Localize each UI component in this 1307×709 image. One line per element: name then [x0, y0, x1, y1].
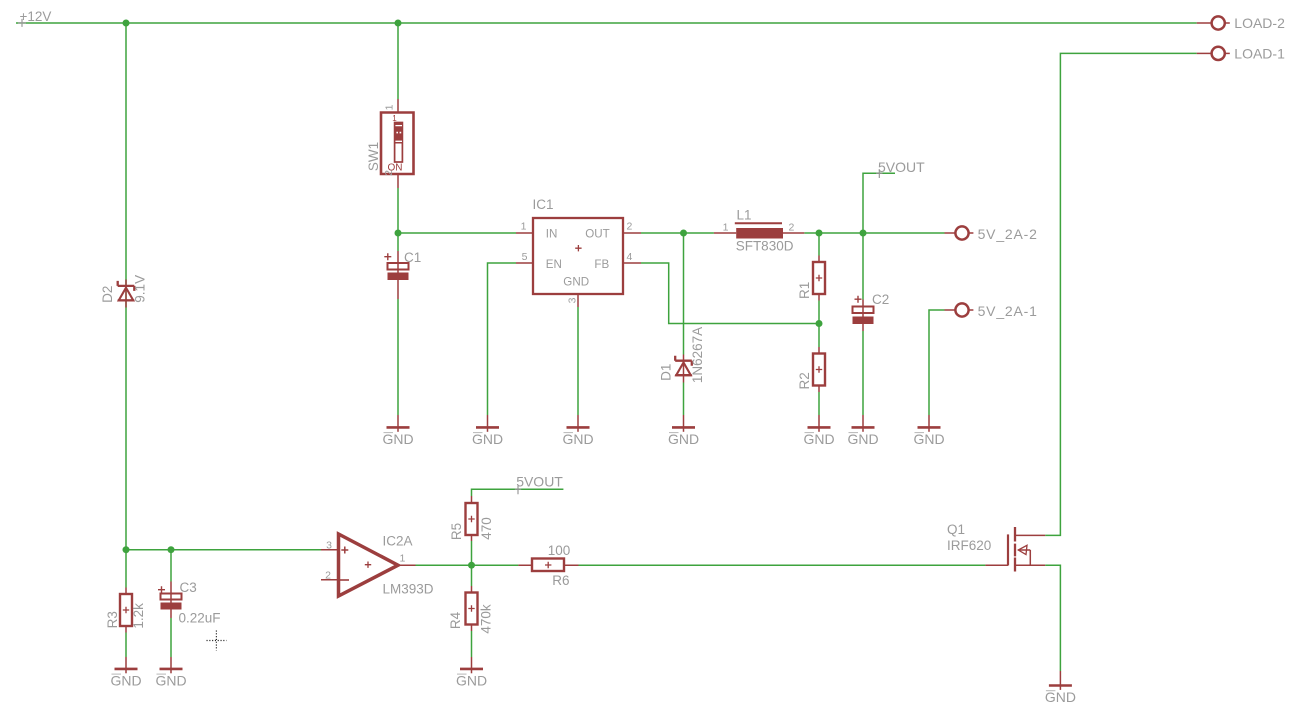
svg-text:1: 1	[521, 221, 527, 233]
capacitor C2	[853, 296, 874, 331]
svg-text:9.1V: 9.1V	[132, 275, 147, 303]
wire L1 to 5V_2A-2 pin	[804, 232, 944, 234]
svg-text:D2: D2	[100, 286, 115, 303]
svg-text:5V_2A-1: 5V_2A-1	[978, 303, 1038, 319]
svg-text:FB: FB	[594, 258, 609, 271]
svg-text:EN: EN	[546, 258, 562, 271]
wire R5 bottom	[471, 541, 473, 565]
wire SW1 bottom to node	[397, 188, 399, 233]
svg-text:470: 470	[479, 517, 494, 540]
wire R2 to GND	[818, 392, 820, 415]
svg-text:5: 5	[522, 251, 528, 263]
switch SW1	[381, 99, 414, 188]
node 5VOUT label bottom	[515, 474, 564, 495]
diode D2 zener 9.1V	[118, 280, 135, 308]
resistor R2	[813, 347, 825, 392]
wire C2 to GND	[862, 331, 864, 415]
svg-text:5VOUT: 5VOUT	[516, 474, 563, 490]
ground	[472, 415, 503, 447]
junction	[816, 230, 823, 237]
wire node to IC1 IN	[398, 232, 516, 234]
wire Q1 source to GND	[1045, 565, 1060, 671]
wire R4 top	[471, 565, 473, 586]
svg-text:3: 3	[326, 540, 332, 552]
ground	[382, 415, 413, 447]
diode D1 1N6267A	[675, 355, 692, 383]
transistor Q1 IRF620	[985, 527, 1045, 572]
svg-text:GND: GND	[1045, 689, 1076, 705]
op-amp IC2A LM393D	[321, 534, 416, 596]
wire C1 top	[397, 233, 399, 251]
svg-text:GND: GND	[803, 431, 834, 447]
wire IC1 OUT to L1	[641, 232, 714, 234]
svg-text:5VOUT: 5VOUT	[878, 159, 925, 175]
svg-text:100: 100	[548, 543, 571, 558]
connector pin 5V_2A-2	[945, 226, 974, 239]
ground	[562, 415, 593, 447]
svg-text:1: 1	[392, 114, 397, 123]
svg-text:GND: GND	[913, 431, 944, 447]
svg-text:C1: C1	[404, 250, 421, 265]
svg-text:5V_2A-2: 5V_2A-2	[978, 226, 1038, 242]
svg-text:GND: GND	[668, 431, 699, 447]
resistor R1	[813, 256, 825, 301]
wire C3 top	[170, 550, 172, 582]
junction	[816, 320, 823, 327]
junction	[468, 562, 475, 569]
svg-text:GND: GND	[562, 431, 593, 447]
node +12V label	[18, 9, 51, 27]
inductor L1	[714, 223, 804, 238]
svg-text:GND: GND	[472, 431, 503, 447]
junction	[395, 230, 402, 237]
svg-text:4: 4	[627, 251, 633, 263]
svg-text:+12V: +12V	[20, 9, 52, 24]
wire R1 top	[818, 233, 820, 256]
svg-text:2: 2	[383, 170, 395, 176]
junction	[168, 546, 175, 553]
wire +12V top rail	[16, 22, 1197, 24]
svg-text:1: 1	[383, 104, 395, 110]
svg-text:0.22uF: 0.22uF	[179, 611, 221, 626]
wire 5VOUT riser	[863, 173, 895, 233]
svg-text:R1: R1	[797, 282, 812, 299]
ground	[456, 657, 487, 689]
resistor R4	[466, 586, 478, 631]
wire R3 to GND	[125, 633, 127, 658]
wire IC2A output to R6	[416, 564, 519, 566]
junction	[680, 230, 687, 237]
svg-text:L1: L1	[737, 208, 752, 223]
svg-text:1.2k: 1.2k	[131, 603, 146, 629]
wire D1 branch upper	[683, 233, 685, 355]
op-amp/regulator IC1	[516, 218, 641, 307]
node 5VOUT label top	[876, 159, 925, 178]
svg-text:IC1: IC1	[533, 197, 554, 212]
svg-text:2: 2	[325, 570, 331, 582]
svg-text:GND: GND	[563, 275, 589, 288]
svg-text:R2: R2	[797, 372, 812, 389]
svg-text:3: 3	[566, 297, 578, 303]
svg-text:R3: R3	[105, 611, 120, 628]
capacitor C1	[384, 251, 408, 299]
svg-text:C3: C3	[180, 580, 197, 595]
wire R5 top 5VOUT stub	[472, 489, 564, 496]
svg-text:IRF620: IRF620	[947, 538, 991, 553]
svg-text:C2: C2	[872, 292, 889, 307]
svg-text:1N6267A: 1N6267A	[690, 327, 705, 383]
wire R2 top	[818, 324, 820, 348]
junction	[860, 230, 867, 237]
junction	[395, 20, 402, 27]
svg-text:2: 2	[789, 222, 795, 234]
resistor R5	[466, 496, 478, 541]
ground	[1045, 671, 1076, 705]
wire LOAD-1 down to Q1 drain	[1045, 53, 1197, 535]
svg-text:470k: 470k	[479, 604, 494, 634]
svg-text:R5: R5	[449, 523, 464, 540]
wire R1 bottom to node	[818, 301, 820, 324]
connector pin LOAD-2	[1197, 16, 1230, 29]
ground	[803, 415, 834, 447]
svg-text:IC2A: IC2A	[383, 534, 413, 549]
cursor cross mark	[207, 631, 227, 651]
svg-text:GND: GND	[382, 431, 413, 447]
wire R3 top	[125, 550, 127, 588]
junction	[123, 20, 130, 27]
wire R6 to Q1 gate	[579, 564, 986, 566]
ground	[913, 415, 944, 447]
svg-text:GND: GND	[456, 673, 487, 689]
wire D1 to GND	[683, 383, 685, 416]
wire C3 to GND	[170, 618, 172, 657]
capacitor C3	[158, 582, 182, 619]
svg-text:GND: GND	[110, 673, 141, 689]
svg-text:LOAD-2: LOAD-2	[1234, 15, 1285, 31]
wire C2 top	[862, 233, 864, 300]
wire 5V_2A-1 to GND	[929, 310, 945, 415]
wire IC1 GND pin down	[577, 307, 579, 415]
ground	[668, 415, 699, 447]
svg-text:R6: R6	[552, 573, 569, 588]
svg-text:OUT: OUT	[585, 228, 609, 241]
svg-text:2: 2	[627, 221, 633, 233]
wire comparator input net	[126, 549, 321, 551]
ground	[110, 657, 141, 689]
svg-text:LOAD-1: LOAD-1	[1234, 46, 1285, 62]
connector pin LOAD-1	[1197, 47, 1230, 60]
wire R4 to GND	[471, 631, 473, 657]
svg-text:SFT830D: SFT830D	[736, 238, 794, 253]
ground	[155, 657, 186, 689]
svg-text:GND: GND	[847, 431, 878, 447]
svg-text:R4: R4	[448, 611, 463, 629]
wire C1 to GND	[397, 299, 399, 415]
svg-text:1: 1	[400, 553, 406, 565]
svg-text:SW1: SW1	[366, 142, 381, 171]
junction	[123, 546, 130, 553]
connector pin 5V_2A-1	[945, 303, 974, 316]
svg-text:D1: D1	[658, 364, 673, 381]
resistor R3	[120, 588, 132, 633]
svg-text:Q1: Q1	[947, 522, 965, 537]
wire IC1 FB to R1/R2 node	[641, 263, 819, 324]
wire IC1 EN to GND	[488, 263, 517, 415]
wire SW1 top	[397, 23, 399, 99]
wire left rail from +12V to comparator input	[125, 23, 127, 550]
svg-text:IN: IN	[546, 228, 558, 241]
svg-text:1: 1	[723, 222, 729, 234]
svg-text:LM393D: LM393D	[383, 582, 434, 597]
ground	[847, 415, 878, 447]
svg-text:GND: GND	[155, 673, 186, 689]
resistor R6	[518, 559, 578, 572]
